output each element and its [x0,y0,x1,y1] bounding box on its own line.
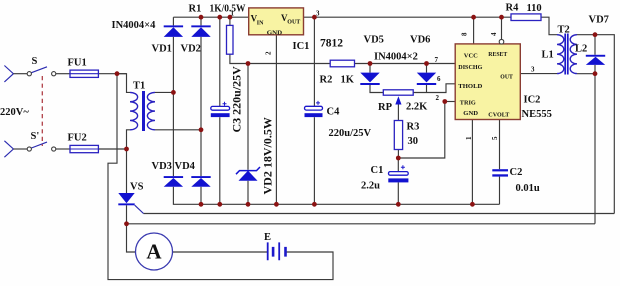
svg-text:C1: C1 [371,165,384,176]
svg-text:C3 220u/25V: C3 220u/25V [230,66,244,133]
svg-text:S: S [32,56,38,67]
svg-text:VD7: VD7 [589,15,609,26]
svg-text:2.2K: 2.2K [406,102,428,113]
svg-text:GND: GND [267,30,283,36]
svg-text:VD3: VD3 [152,161,172,172]
svg-text:TRIG: TRIG [460,101,476,107]
svg-text:E: E [264,232,271,243]
svg-text:OUT: OUT [287,20,300,26]
svg-text:IN4004×2: IN4004×2 [374,52,418,63]
svg-text:VD5: VD5 [364,35,384,46]
svg-text:R1: R1 [189,4,202,15]
svg-text:C2: C2 [510,167,523,178]
svg-text:VD1: VD1 [152,44,172,55]
svg-text:R4: R4 [506,3,520,14]
svg-text:RP: RP [378,102,393,113]
svg-text:T1: T1 [133,81,145,92]
svg-text:VD4: VD4 [175,161,196,172]
svg-text:T2: T2 [558,25,570,36]
svg-text:NE555: NE555 [522,109,552,120]
svg-text:220V~: 220V~ [0,107,29,118]
svg-text:5: 5 [491,136,499,140]
svg-text:S': S' [31,131,40,142]
svg-text:4: 4 [490,32,498,36]
svg-text:VS: VS [130,182,144,193]
svg-text:6: 6 [437,75,441,83]
svg-text:L2: L2 [575,44,587,55]
svg-text:7812: 7812 [320,38,343,50]
svg-text:30: 30 [408,136,419,147]
svg-text:7: 7 [435,56,439,64]
svg-text:IN4004×4: IN4004×4 [112,20,157,31]
svg-text:110: 110 [527,3,542,14]
svg-text:RESET: RESET [488,52,507,58]
svg-text:1: 1 [465,136,473,140]
svg-text:VD2 18V/0.5W: VD2 18V/0.5W [261,117,275,194]
svg-text:THOLD: THOLD [458,84,483,90]
svg-text:220u/25V: 220u/25V [329,128,372,139]
svg-text:VCC: VCC [464,54,478,60]
svg-text:0.01u: 0.01u [516,183,540,194]
svg-text:2.2u: 2.2u [361,181,380,192]
svg-text:L1: L1 [542,50,554,61]
svg-text:1: 1 [231,10,235,18]
svg-text:IC1: IC1 [293,41,310,52]
svg-text:FU2: FU2 [68,133,87,144]
svg-text:IC2: IC2 [524,95,541,106]
svg-text:VD6: VD6 [410,35,430,46]
svg-text:3: 3 [531,66,535,74]
svg-text:R3: R3 [407,122,420,133]
svg-text:DISCHG: DISCHG [458,65,482,71]
svg-text:A: A [146,240,162,264]
svg-text:8: 8 [461,32,469,36]
svg-text:GND: GND [463,111,478,117]
svg-text:3: 3 [316,10,320,18]
svg-text:1K: 1K [341,75,355,86]
svg-text:VD2: VD2 [181,44,201,55]
svg-text:C4: C4 [327,107,341,118]
svg-text:CVOLT: CVOLT [488,113,509,119]
svg-text:OUT: OUT [500,75,513,81]
svg-text:1K/0.5W: 1K/0.5W [210,4,246,15]
svg-text:FU1: FU1 [68,58,87,69]
svg-text:2: 2 [436,94,440,102]
svg-text:2: 2 [265,51,273,55]
svg-text:IN: IN [257,21,264,27]
svg-text:R2: R2 [320,75,333,86]
